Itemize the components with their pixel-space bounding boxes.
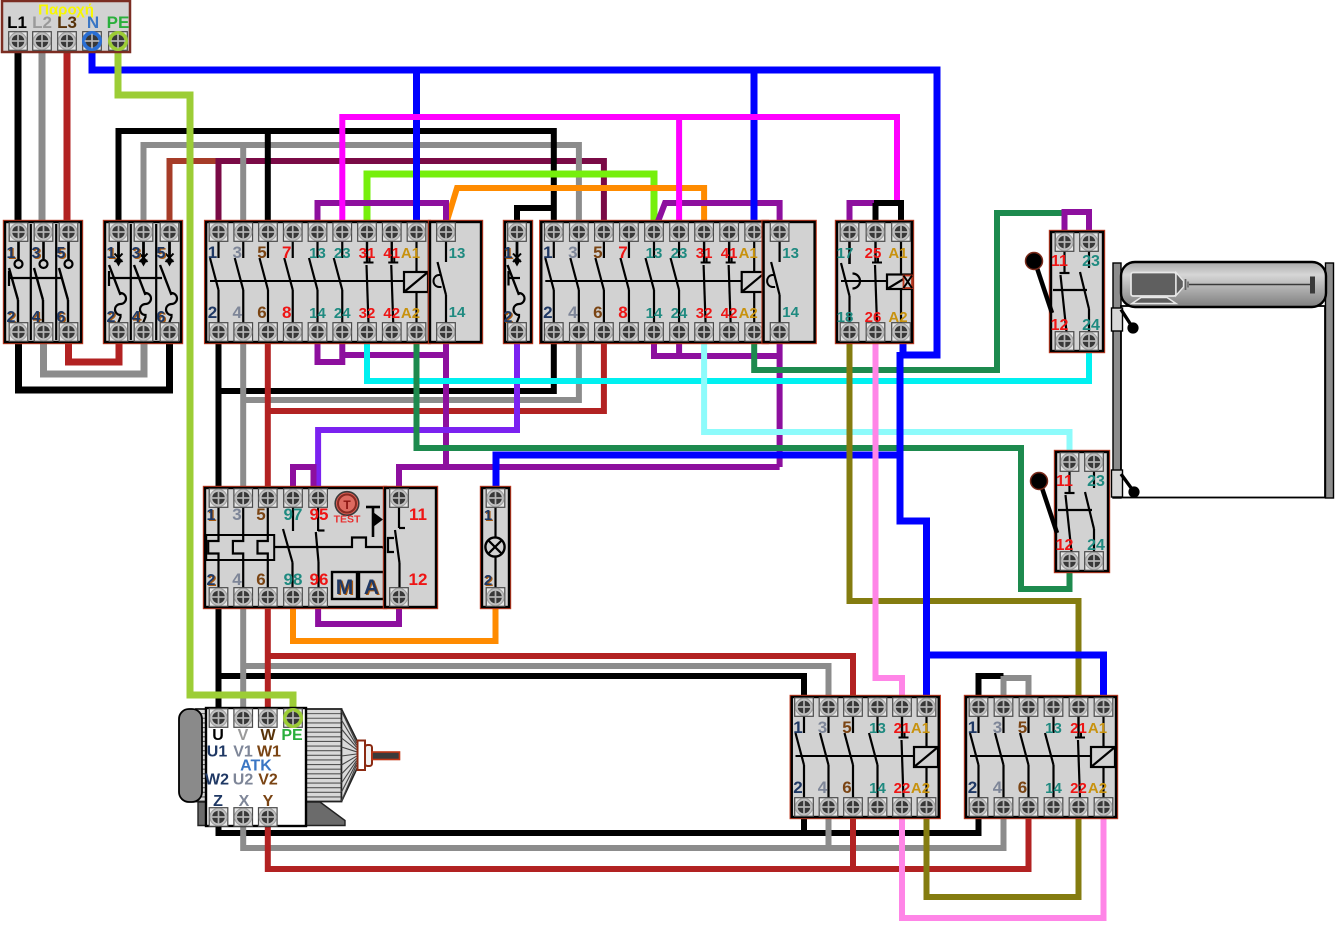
wire green KM1-31 to KM2-13 [367, 174, 654, 226]
wire grey L2 bus Q2-3 KM1-3 KM2-3 [144, 145, 579, 226]
svg-text:6: 6 [1018, 778, 1027, 797]
svg-text:5: 5 [1018, 718, 1027, 737]
limit switch contact block S2 [1031, 451, 1110, 573]
svg-text:3: 3 [132, 245, 141, 262]
wire grey Q1-4 to Q2-4 [44, 336, 145, 374]
KM4 terminal [1044, 698, 1063, 717]
wire black tap to KM2-2 [219, 336, 554, 391]
motor terminal Y [259, 808, 278, 827]
svg-text:L2: L2 [32, 13, 52, 32]
svg-text:21: 21 [894, 720, 911, 737]
KM3 terminal [844, 698, 863, 717]
svg-text:14: 14 [309, 305, 326, 322]
svg-text:U: U [212, 727, 224, 744]
svg-text:A2: A2 [401, 305, 420, 322]
wire purple KM2-24 to aux14 [679, 353, 780, 359]
svg-text:U1: U1 [207, 744, 228, 761]
svg-text:1: 1 [208, 243, 217, 262]
svg-text:98: 98 [284, 570, 303, 589]
KT1 terminal [866, 223, 885, 242]
wire grey drop KM1-3 [240, 145, 246, 226]
svg-text:13: 13 [449, 245, 466, 262]
svg-text:M: M [336, 576, 354, 599]
svg-text:14: 14 [449, 304, 466, 321]
KT1 terminal [892, 223, 911, 242]
svg-text:42: 42 [721, 305, 738, 322]
svg-text:1: 1 [793, 718, 802, 737]
motor terminal V [234, 709, 253, 728]
wire grey KM1-4 to F1-3 to motor V [240, 336, 246, 714]
svg-text:A2: A2 [911, 780, 930, 797]
wire purple KM2 14-24 jumper [654, 336, 679, 356]
svg-text:24: 24 [334, 305, 351, 322]
svg-text:11: 11 [409, 505, 427, 524]
svg-text:14: 14 [869, 780, 886, 797]
svg-text:L3: L3 [57, 13, 77, 32]
svg-text:3: 3 [818, 718, 827, 737]
H1 terminal 1 [486, 489, 505, 508]
drum shaft [1189, 284, 1310, 286]
motor terminal U [209, 709, 228, 728]
svg-text:7: 7 [618, 243, 627, 262]
svg-text:14: 14 [782, 304, 799, 321]
door panel [1121, 306, 1325, 498]
circuit breaker Q2 (3-pole MCB) [104, 221, 183, 344]
terminal L1 [9, 32, 28, 51]
wire black Q1-2 to Q2-6 [19, 336, 170, 390]
svg-text:41: 41 [721, 245, 738, 262]
wire purple KM2-aux14 drop [777, 336, 783, 467]
KM1 terminal [234, 223, 253, 242]
auxiliary contact block KM2 13-14 [762, 221, 816, 344]
svg-text:A1: A1 [401, 245, 420, 262]
wire red KM1-6 to F1-5 to motor W [265, 336, 271, 714]
KM4 terminal [969, 698, 988, 717]
wire magenta bus KM1-23 KM2-23 KT1 [342, 117, 897, 226]
KM3 terminal [795, 698, 814, 717]
svg-text:6: 6 [593, 303, 602, 322]
motor foot [198, 802, 345, 826]
wire black branch to F2-1 [517, 208, 554, 226]
wire blue branch to KM4-A1 [927, 655, 1104, 701]
wire green KM1-A2 to S2-12 [417, 336, 1070, 589]
svg-text:24: 24 [671, 305, 688, 322]
svg-text:17: 17 [837, 245, 854, 262]
wire red tap to KM2-6 [268, 336, 604, 411]
Q2 terminal [134, 223, 153, 242]
svg-text:A: A [364, 576, 379, 599]
F1 terminal [309, 489, 328, 508]
Q2 terminal [109, 223, 128, 242]
svg-text:N: N [87, 13, 99, 32]
lower cam lever [1121, 474, 1133, 491]
wire red branch KM3-6 [850, 813, 856, 869]
svg-text:23: 23 [334, 245, 351, 262]
KM2 terminal [570, 223, 589, 242]
auxiliary contact block KM1 13-14 [429, 221, 483, 344]
KM1 terminal [407, 223, 426, 242]
motor shaft [372, 752, 400, 760]
svg-text:31: 31 [359, 245, 376, 262]
thermal overload relay F1 [204, 487, 398, 609]
wire purple F1 96 to aux12 [318, 601, 399, 624]
wire grey KM4 3-5 jumper [1001, 676, 1007, 701]
wire pink KT1-26 to KM3-21 [876, 336, 903, 701]
F1 terminal [259, 489, 278, 508]
svg-text:2: 2 [793, 778, 802, 797]
contactor KM2 [540, 221, 768, 344]
KT1 terminal [840, 223, 859, 242]
svg-text:11: 11 [1056, 473, 1073, 490]
contactor KM4 [965, 696, 1118, 819]
wire PE green-yellow to motor PE [118, 50, 293, 714]
KM1 terminal [358, 223, 377, 242]
svg-text:1: 1 [107, 245, 116, 262]
wire purple KM2-13 to aux 13 [657, 203, 780, 226]
svg-text:41: 41 [383, 245, 400, 262]
KM4 terminal [994, 698, 1013, 717]
wire purple KM1-aux14 drop [443, 336, 449, 467]
svg-text:23: 23 [1087, 473, 1105, 490]
circuit breaker F2 (1-pole MCB) [504, 221, 533, 344]
motor M1 (three-phase, ATK) [179, 708, 400, 826]
wire olive KT1-18 to KM4-21 [850, 336, 1079, 701]
wire orange F1-98 to lamp H1-2 [293, 601, 496, 641]
wire red motor Y to KM3-6 KM4-6 [268, 813, 1029, 869]
svg-text:14: 14 [646, 305, 663, 322]
wire L1 black supply to Q1-1 [15, 50, 22, 226]
wire brown Q2-5 riser [170, 161, 219, 226]
svg-text:PE: PE [107, 13, 130, 32]
svg-text:5: 5 [593, 243, 602, 262]
KM2 terminal [545, 223, 564, 242]
upper cam block [1112, 308, 1123, 331]
svg-text:3: 3 [568, 243, 577, 262]
svg-text:8: 8 [618, 303, 627, 322]
svg-text:6: 6 [257, 303, 266, 322]
wire N blue bus [92, 50, 937, 355]
svg-text:13: 13 [646, 245, 663, 262]
svg-text:A1: A1 [739, 245, 758, 262]
svg-text:13: 13 [782, 245, 799, 262]
svg-text:42: 42 [383, 305, 400, 322]
wire olive KM3-A2 to KM4-22 [927, 813, 1079, 897]
wire purple KM1-24 to aux14 [342, 352, 446, 358]
wire blue drop KM2-A1 [751, 70, 758, 226]
wire orange KM1-aux13 to KM2-31 [446, 188, 704, 226]
svg-text:14: 14 [1045, 780, 1062, 797]
KM2 terminal [745, 223, 764, 242]
wire green KM2-A2 to S1-11 [754, 213, 1064, 370]
svg-text:1: 1 [207, 507, 216, 524]
drive mount [1132, 298, 1176, 304]
Q2 terminal [160, 223, 179, 242]
svg-text:2: 2 [543, 303, 552, 322]
timer relay KT1 (star-delta timer) [836, 221, 914, 344]
roller shutter door with drive [1112, 262, 1334, 498]
left guide rail [1113, 263, 1121, 498]
KM2 aux terminal 14 [770, 323, 789, 342]
F2 terminal 1 [508, 223, 527, 242]
KM3 terminal [868, 698, 887, 717]
drum drive motor [1131, 273, 1176, 297]
svg-text:2: 2 [484, 572, 492, 589]
F1 aux terminal 12 [390, 588, 409, 607]
Q1 terminal [59, 223, 78, 242]
svg-text:A1: A1 [1088, 720, 1107, 737]
wire blue drop KM1-A1 [413, 70, 420, 226]
wire black KM1-2 to F1-1 to motor U [216, 336, 222, 714]
KM4 terminal [1069, 698, 1088, 717]
svg-text:96: 96 [310, 570, 329, 589]
KM2 terminal [695, 223, 714, 242]
wire black KT1 25-A1 jumper [874, 203, 901, 226]
svg-text:1: 1 [484, 507, 492, 524]
motor terminal PE [284, 709, 303, 728]
svg-text:V2: V2 [258, 772, 278, 789]
svg-text:25: 25 [865, 245, 882, 262]
svg-text:1: 1 [7, 245, 16, 262]
svg-text:13: 13 [869, 720, 886, 737]
wire red tap to KM3-5 [268, 656, 853, 701]
svg-text:A2: A2 [1088, 780, 1107, 797]
terminal N [83, 32, 102, 51]
svg-text:2: 2 [968, 778, 977, 797]
F1 terminal [284, 489, 303, 508]
svg-text:5: 5 [157, 245, 166, 262]
svg-text:6: 6 [256, 570, 265, 589]
H1 terminal 2 [486, 588, 505, 607]
svg-text:1: 1 [543, 243, 552, 262]
wire violet F2-2 to F1-95 [318, 336, 517, 494]
KM3 terminal [893, 698, 912, 717]
svg-text:U2: U2 [233, 772, 254, 789]
svg-text:T: T [343, 498, 351, 512]
wire grey tap to KM3-3 [243, 666, 828, 701]
svg-text:1: 1 [504, 245, 513, 262]
svg-text:W2: W2 [205, 772, 229, 789]
terminal block Parohi (supply L1 L2 L3 N PE) [2, 1, 130, 52]
svg-text:4: 4 [568, 303, 578, 322]
wire L3 red supply to Q1-5 [64, 50, 71, 226]
wire black drop KM1-5 [265, 131, 271, 226]
KM1 aux terminal 13 [437, 223, 456, 242]
KM1 terminal [382, 223, 401, 242]
terminal L2 [33, 32, 52, 51]
Q1 terminal [9, 223, 28, 242]
KM1 terminal [209, 223, 228, 242]
svg-text:8: 8 [282, 303, 291, 322]
KM1 aux terminal 14 [437, 323, 456, 342]
svg-text:A1: A1 [888, 245, 907, 262]
svg-text:32: 32 [696, 305, 713, 322]
svg-text:22: 22 [894, 780, 911, 797]
wire red Q1-6 to Q2-2 [69, 336, 120, 362]
wire black L1 bus Q2-1 KM1-5 KM2-1 [119, 131, 554, 226]
lower cam block [1112, 470, 1123, 497]
wire grey branch KM3-4 [826, 813, 832, 848]
wire maroon L3 bus KM1-1 KM2-5 [219, 161, 604, 226]
svg-text:5: 5 [57, 245, 66, 262]
wire black tap to KM3-1 [219, 676, 805, 701]
motor terminal Z [209, 808, 228, 827]
terminal L3 [58, 32, 77, 51]
motor terminal X [234, 808, 253, 827]
terminal PE [109, 32, 128, 51]
wire blue branch to lamp H1-1 [496, 455, 900, 494]
svg-text:5: 5 [842, 718, 851, 737]
KM1 terminal [333, 223, 352, 242]
wire L2 grey supply to Q1-3 [39, 50, 46, 226]
F1 terminal [234, 489, 253, 508]
wire purple F1 97-95 jumper [293, 467, 314, 494]
wire cyan KM1-32 to S1-24 [367, 336, 1089, 381]
KM3 terminal [819, 698, 838, 717]
wire black branch KM3-2 [801, 813, 807, 833]
KM2 terminal [720, 223, 739, 242]
wire cyan KM2-32 to S2-11 [704, 336, 1069, 458]
contactor KM3 [790, 696, 940, 819]
S1 terminals [1055, 233, 1074, 252]
svg-text:4: 4 [818, 778, 828, 797]
KM2 terminal [620, 223, 639, 242]
svg-text:23: 23 [671, 245, 688, 262]
F2 terminal 2 [508, 323, 527, 342]
wire blue KT1-A2 down to KM3/KM4 coils [900, 352, 927, 701]
svg-text:TEST: TEST [334, 514, 361, 526]
wire black KT1-25 leg [873, 203, 879, 226]
svg-text:3: 3 [993, 718, 1002, 737]
wire pink KM3-22 to KM4-A2 [902, 813, 1104, 918]
svg-text:PE: PE [281, 727, 303, 744]
wire purple S1 11-23 jumper [1065, 212, 1090, 238]
KM3 terminal [917, 698, 936, 717]
svg-text:13: 13 [1045, 720, 1062, 737]
upper cam lever [1121, 310, 1132, 327]
svg-text:2: 2 [208, 303, 217, 322]
svg-text:12: 12 [409, 570, 428, 589]
KM2 aux terminal 13 [770, 223, 789, 242]
contactor KM1 [205, 221, 431, 344]
KM1 terminal [283, 223, 302, 242]
KM2 terminal [670, 223, 689, 242]
KM4 terminal [1094, 698, 1113, 717]
wire purple KM1 14-24 jumper [318, 336, 343, 362]
svg-text:32: 32 [359, 305, 376, 322]
right guide rail [1326, 263, 1334, 498]
svg-text:7: 7 [282, 243, 291, 262]
svg-text:6: 6 [842, 778, 851, 797]
svg-text:22: 22 [1070, 780, 1087, 797]
Q1 terminal [34, 223, 53, 242]
signal lamp H1 [481, 487, 511, 609]
F1 aux terminal 11 [390, 489, 409, 508]
disconnector Q1 (3-pole switch) [4, 221, 83, 344]
svg-text:5: 5 [257, 243, 266, 262]
svg-text:4: 4 [993, 778, 1003, 797]
svg-text:3: 3 [32, 245, 41, 262]
svg-text:4: 4 [232, 570, 242, 589]
svg-text:21: 21 [1070, 720, 1087, 737]
limit switch contact block S1 [1026, 231, 1105, 353]
motor left end cap [179, 709, 202, 802]
svg-text:A2: A2 [739, 305, 758, 322]
S2 terminals [1060, 453, 1079, 472]
F1 terminal [209, 489, 228, 508]
overload F1 aux contact 11-12 [384, 487, 438, 609]
svg-text:4: 4 [233, 303, 243, 322]
svg-text:W: W [260, 727, 276, 744]
svg-text:3: 3 [233, 243, 242, 262]
wire grey KM4 jumper top [1004, 678, 1029, 701]
svg-text:V: V [238, 727, 249, 744]
motor terminal W [259, 709, 278, 728]
wire black KM4 1-3 jumper [979, 676, 1004, 701]
wire purple KM1-13 to aux 13 [318, 203, 447, 226]
motor terminal box [206, 708, 306, 826]
svg-text:A1: A1 [911, 720, 930, 737]
wire magenta drop KM2-23 [676, 117, 682, 226]
KM2 terminal [645, 223, 664, 242]
KM4 terminal [1019, 698, 1038, 717]
svg-text:2: 2 [207, 572, 216, 589]
svg-text:23: 23 [1082, 253, 1100, 270]
roller drum [1121, 262, 1326, 307]
KM2 terminal [595, 223, 614, 242]
wire grey tap to KM2-4 [243, 336, 579, 400]
svg-text:31: 31 [696, 245, 713, 262]
svg-text:11: 11 [1051, 253, 1068, 270]
KM1 terminal [308, 223, 327, 242]
svg-text:1: 1 [968, 718, 977, 737]
svg-text:13: 13 [309, 245, 326, 262]
wire purple bus to F1-aux11 [399, 467, 780, 495]
wire grey motor X to KM3-4 KM4-4 [243, 813, 1003, 848]
KM1 terminal [259, 223, 278, 242]
svg-text:L1: L1 [7, 13, 27, 32]
wire black motor Z to KM3-2 KM4-2 [219, 813, 979, 833]
wire purple KT1-17 jumper [850, 203, 875, 226]
